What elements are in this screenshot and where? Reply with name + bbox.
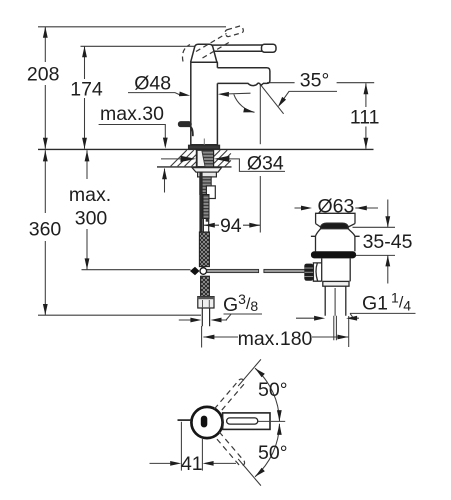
arrows O48	[179, 92, 191, 98]
extension line max300 ref	[82, 269, 191, 271]
arrows max.300	[85, 150, 90, 161]
arrows 360	[43, 150, 48, 161]
spout underside with aerator notch	[217, 83, 263, 86]
arrows O63	[301, 206, 312, 211]
dim line 208	[44, 27, 46, 149]
pop-up linkage ball joint	[190, 267, 200, 275]
plan rear stub	[178, 419, 192, 421]
braided hose upper	[199, 232, 209, 267]
50deg arc upper	[255, 368, 280, 421]
cap base line	[190, 61, 218, 63]
svg-text:max.30: max.30	[100, 103, 164, 125]
41 dim	[150, 422, 237, 471]
rod housing	[313, 263, 321, 281]
arrows 94	[204, 223, 215, 228]
plan aerator dot	[201, 416, 208, 428]
svg-text:208: 208	[27, 64, 60, 86]
35-45 lower extension	[353, 254, 395, 256]
svg-text:360: 360	[29, 219, 62, 241]
O48 leader	[128, 93, 181, 96]
dim line 94	[204, 224, 260, 226]
dim line 360	[44, 150, 46, 315]
dim line max.300	[86, 150, 88, 269]
svg-text:Ø34: Ø34	[247, 153, 284, 175]
handle cap	[191, 44, 217, 62]
svg-text:300: 300	[75, 208, 108, 230]
arrows 35-45	[385, 216, 390, 227]
svg-text:max.: max.	[69, 184, 111, 206]
extension line top (208 ref, lever raised max height)	[38, 26, 226, 28]
pop-up rod knob on body	[179, 122, 193, 136]
35deg spray line	[261, 85, 284, 114]
internal hose hint	[203, 139, 205, 145]
plan lever	[223, 413, 270, 430]
dim line 174	[84, 46, 86, 149]
waste neck	[322, 258, 351, 281]
mounting stud block	[206, 186, 215, 199]
G1 1/4 arrow tails	[296, 317, 359, 319]
35deg leader line	[279, 91, 337, 105]
counter top line	[38, 148, 374, 150]
dashed raised lever	[182, 25, 243, 61]
waste head bell	[311, 229, 360, 252]
50deg arc lower	[255, 424, 280, 477]
G1 1/4 leader	[350, 313, 416, 317]
G3/8 leader	[224, 314, 263, 320]
extension line bottom (360 ref, hose end)	[38, 314, 201, 316]
lever end knob	[262, 44, 277, 52]
35-45 upper stub	[387, 200, 389, 228]
body base line	[191, 144, 218, 146]
arrows G1 1/4	[314, 316, 325, 321]
counter bottom line	[157, 166, 232, 168]
faucet body sides	[191, 62, 218, 145]
svg-text:174: 174	[70, 79, 103, 101]
dim line 111	[365, 83, 367, 149]
plan body circle	[191, 407, 222, 438]
braided hose lower	[201, 276, 210, 296]
arrows 50deg upper arc	[253, 366, 264, 377]
arrow 35deg arc	[243, 108, 255, 115]
arrows 41	[170, 461, 181, 466]
pop-up rod vertical	[199, 172, 202, 267]
arrows 50deg lower arc	[277, 424, 282, 435]
arrows 208	[43, 27, 48, 38]
max.30 lower arrow tail	[164, 169, 166, 193]
arrows O34	[181, 156, 197, 162]
svg-text:50°: 50°	[258, 442, 288, 464]
small stop mark	[206, 219, 209, 222]
svg-text:35-45: 35-45	[363, 231, 413, 253]
waste head upper cylinder	[316, 213, 355, 227]
35-45 lower stub	[387, 255, 389, 283]
dashed lever position lower	[214, 432, 263, 488]
O34 left tail	[161, 158, 181, 160]
mounting nut	[198, 172, 217, 177]
counter hatching	[171, 150, 231, 167]
G3/8 arrow tails	[179, 319, 227, 321]
max.180 left ext line	[201, 326, 203, 348]
arrow max.30 lower	[162, 168, 167, 179]
svg-text:50°: 50°	[258, 379, 288, 401]
35deg angle arc	[234, 94, 255, 112]
arrows 111	[364, 83, 369, 94]
extension line 174 ref (cap top)	[81, 45, 196, 47]
max.30 leader	[99, 125, 166, 147]
horizontal pop-up rod	[207, 269, 306, 272]
dashed lever position upper	[214, 357, 263, 413]
clamp knob	[304, 264, 313, 281]
dim line O63	[295, 207, 379, 209]
G3/8 nipple tube	[202, 308, 209, 326]
centerline below O34	[259, 176, 261, 233]
lever bar	[212, 45, 263, 51]
svg-text:111: 111	[350, 107, 380, 129]
max.180 right ext line	[348, 316, 350, 347]
svg-text:max.180: max.180	[238, 328, 313, 350]
35deg vertical reference	[259, 85, 261, 144]
waste bottom washer	[323, 281, 349, 286]
waste seal collar	[311, 251, 356, 258]
O48 right tail	[229, 92, 251, 95]
plan centerline	[258, 420, 285, 422]
connection tube	[203, 195, 209, 219]
plan lever slot	[227, 418, 258, 424]
base plate	[189, 145, 220, 149]
arrow 35deg leader	[276, 97, 286, 109]
threaded stub below nut	[200, 177, 211, 195]
waste plug dark cap	[321, 223, 349, 229]
waste inner tube lines	[334, 288, 337, 340]
threaded shank through counter	[196, 150, 213, 167]
max.180 dim line	[203, 336, 348, 338]
waste tailpipe G1 1/4	[325, 286, 346, 316]
arrows max.180	[203, 335, 214, 340]
arrows G3/8	[190, 318, 201, 323]
svg-text:35°: 35°	[300, 70, 330, 92]
G3/8 hose nut	[198, 297, 214, 308]
arrows 174	[82, 46, 87, 57]
O34 leader right	[229, 159, 286, 172]
svg-text:Ø48: Ø48	[134, 73, 171, 95]
35-45 upper extension	[353, 226, 396, 228]
arrow max.30	[163, 138, 168, 149]
35deg label line / 111 top reference	[267, 82, 374, 84]
stabilizing washer	[192, 168, 222, 173]
spout	[217, 68, 270, 84]
svg-text:94: 94	[220, 215, 242, 237]
svg-text:Ø63: Ø63	[317, 196, 354, 218]
svg-text:41: 41	[181, 453, 203, 475]
